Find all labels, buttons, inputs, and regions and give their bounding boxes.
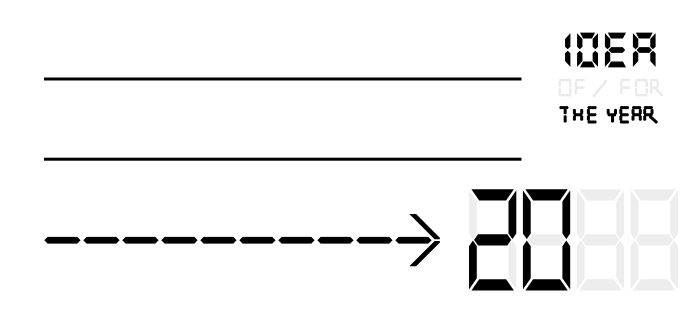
- gray word OF/FOR letter R: [650, 79, 663, 97]
- arrow shaft dash 8: [317, 237, 353, 244]
- arrow shaft dash 4: [161, 237, 197, 244]
- arrow shaft dash 10: [395, 237, 431, 244]
- arrow shaft dash 2: [83, 237, 119, 244]
- word THE-YEAR letter A: [632, 106, 642, 121]
- word THE-YEAR letter T: [559, 106, 569, 123]
- year digit blank 4 (unlit 8): [631, 189, 678, 290]
- logo letter A: [633, 33, 656, 67]
- word THE-YEAR letter H: [573, 109, 583, 121]
- arrow shaft dash 1: [44, 237, 80, 244]
- word THE-YEAR letter E: [587, 106, 597, 123]
- word THE-YEAR letter E: [619, 106, 629, 123]
- arrow shaft dash 5: [200, 237, 236, 244]
- logo letter D: [577, 33, 598, 68]
- word THE-YEAR letter R: [643, 106, 658, 124]
- gray word OF/FOR letter F2: [620, 79, 630, 94]
- arrow shaft dash 9: [356, 237, 392, 244]
- rule line top: [44, 78, 522, 81]
- gray word OF/FOR letter F: [575, 79, 585, 94]
- rule line bottom: [44, 158, 522, 161]
- arrow shaft dash 3: [122, 237, 158, 244]
- year digit blank 3 (unlit 8): [577, 189, 624, 290]
- arrow head lower stroke: [409, 241, 440, 266]
- gray word OF/FOR letter O: [558, 79, 571, 97]
- word THE-YEAR letter Y: [607, 109, 617, 123]
- logo letter E: [605, 33, 626, 68]
- arrow shaft dash 7: [278, 237, 314, 244]
- year digit 2: [469, 189, 516, 290]
- arrow shaft dash 6: [239, 237, 275, 244]
- gray word OF/FOR slash: [592, 80, 607, 97]
- logo letter I (digit-1 style): [565, 33, 570, 67]
- gray word OF/FOR letter O2: [635, 79, 648, 97]
- year digit 0: [523, 189, 570, 290]
- arrow head upper stroke: [409, 214, 440, 239]
